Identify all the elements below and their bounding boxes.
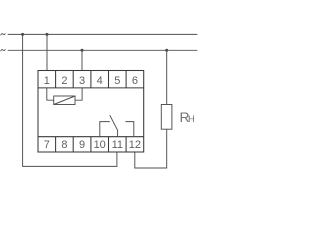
junction node on line 1 (left, x=22.6)	[21, 33, 24, 36]
junction node on line 2 (RH feed)	[165, 49, 168, 52]
terminal dividers bottom row	[56, 137, 127, 152]
svg-text:9: 9	[79, 139, 85, 151]
junction node on line 1 (terminal 1 feed)	[46, 33, 49, 36]
AC source symbol ~ on line 1	[1, 33, 6, 35]
value label RH (load)	[180, 109, 195, 125]
wire: line 2 down to terminal 3	[81, 50, 83, 70]
device outline (relay module body)	[38, 71, 144, 153]
svg-text:2: 2	[61, 75, 67, 87]
contact blade (pole, terminal 11)	[110, 115, 118, 137]
svg-text:H: H	[188, 113, 195, 124]
AC source symbol ~ on line 2	[1, 49, 6, 51]
wire: terminal 12 down, right, up to RH bottom	[135, 129, 167, 168]
load resistor RH	[161, 105, 172, 130]
svg-text:6: 6	[132, 75, 138, 87]
wire: terminal 3 to coil right	[75, 88, 82, 100]
terminal dividers top row	[56, 71, 127, 88]
contact fixed lead from terminal 12	[125, 122, 133, 137]
svg-text:3: 3	[79, 75, 85, 87]
wire: AC supply line 1 (top bus)	[8, 33, 198, 35]
svg-text:12: 12	[129, 139, 141, 151]
svg-text:1: 1	[44, 75, 50, 87]
svg-text:4: 4	[97, 75, 103, 87]
wire: line 1 down to terminal 1	[46, 34, 48, 70]
svg-text:10: 10	[94, 139, 106, 151]
svg-text:11: 11	[112, 139, 123, 151]
wire: terminal 1 to coil left	[47, 88, 54, 100]
junction node on line 2 (terminal 3 feed)	[81, 49, 84, 52]
wire: line 2 down to RH top	[166, 50, 168, 104]
contact fixed lead from terminal 10	[100, 122, 110, 137]
wire: line 1 down left side and under device to terminal 11	[23, 34, 117, 166]
bottom terminal strip top edge	[38, 136, 144, 138]
svg-text:8: 8	[61, 139, 67, 151]
top terminal strip bottom edge	[38, 87, 144, 89]
coil A1 (box with diagonal)	[54, 96, 75, 105]
wire: AC supply line 2 (lower bus)	[8, 49, 198, 51]
svg-text:5: 5	[114, 75, 120, 87]
svg-text:7: 7	[44, 139, 50, 151]
